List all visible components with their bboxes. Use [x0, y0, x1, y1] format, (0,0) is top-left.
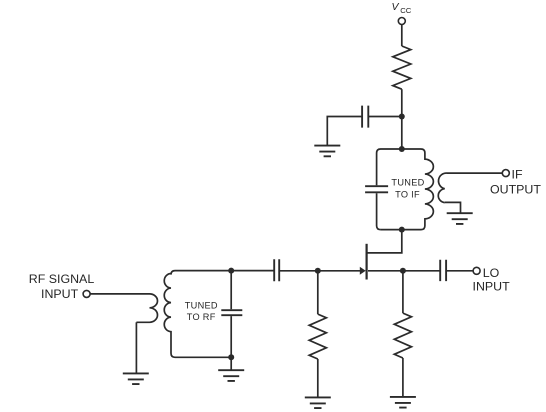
label RF SIGNAL INPUT — [29, 272, 95, 301]
svg-text:CC: CC — [400, 6, 411, 15]
inductor L1a primary of RF transformer — [136, 294, 157, 322]
svg-text:TUNED: TUNED — [185, 301, 218, 311]
RF input terminal circle — [83, 290, 90, 297]
junction dot LO node — [400, 268, 406, 274]
ground (R2) — [305, 397, 331, 408]
wire RF tank cap branch — [230, 271, 232, 358]
wire RF input to T1 primary — [90, 293, 149, 295]
label LO INPUT — [473, 266, 511, 294]
IF output terminal circle — [502, 170, 509, 177]
junction dot IF tank bottom — [399, 227, 405, 233]
wire drain stub to IF tank — [367, 233, 402, 253]
wire C3 to LO terminal — [446, 270, 473, 272]
wire RF tank ground stem — [230, 357, 232, 370]
wire right resistor top — [402, 271, 404, 313]
wire C1 to ground — [327, 117, 362, 146]
junction dot drain bypass node — [399, 114, 405, 120]
wire source side bus — [368, 270, 440, 272]
svg-text:RF SIGNAL: RF SIGNAL — [29, 272, 95, 286]
wire R2 to ground — [317, 359, 319, 397]
svg-text:TO IF: TO IF — [395, 189, 420, 199]
svg-text:INPUT: INPUT — [473, 280, 511, 294]
wire R1 to IF tank top — [401, 89, 403, 149]
junction dot IF tank top — [399, 146, 405, 152]
wire left resistor top — [317, 271, 319, 314]
inductor L2 primary of IF transformer — [421, 153, 433, 230]
svg-text:TO RF: TO RF — [187, 312, 216, 322]
transistor Q1 gate arrow — [360, 267, 366, 275]
capacitor C2 (series RF coupling) — [274, 259, 279, 281]
resistor R3 (source bias) — [394, 313, 411, 358]
svg-text:V: V — [392, 1, 400, 13]
resistor R2 (gate bias) — [309, 314, 326, 359]
wire T1 primary to ground — [135, 322, 137, 373]
capacitor C5 (RF tank) — [221, 310, 242, 315]
junction dot gate bus left — [228, 268, 234, 274]
transistor Q1 channel bar — [366, 244, 368, 280]
ground (IF secondary) — [447, 213, 473, 224]
wire series cap to gate — [279, 270, 361, 272]
inductor L3 secondary of IF transformer — [438, 173, 502, 203]
ground (RF tank) — [218, 370, 244, 381]
capacitor C4 (IF tank) — [365, 186, 388, 192]
label TUNED TO RF — [185, 301, 218, 323]
wire main bus tank top to series cap — [175, 270, 274, 272]
ground (RF primary) — [123, 373, 149, 384]
resistor R1 (drain supply) — [393, 46, 411, 89]
wire IF secondary to ground — [445, 202, 461, 213]
junction dot source bias node — [315, 268, 321, 274]
wire IF tank left side upper — [376, 153, 378, 185]
svg-text:OUTPUT: OUTPUT — [490, 183, 541, 197]
label TUNED TO IF — [391, 178, 424, 200]
wire RF tank bottom edge — [175, 356, 231, 358]
LO input terminal circle — [473, 267, 480, 274]
svg-text:TUNED: TUNED — [391, 178, 424, 188]
inductor L1b secondary of RF transformer — [164, 271, 175, 358]
node Vcc label — [392, 1, 412, 15]
wire IF tank left side lower — [377, 193, 381, 229]
junction dot RF tank bottom — [228, 354, 234, 360]
ground (R3) — [390, 397, 416, 408]
Vcc terminal circle — [398, 18, 405, 25]
wire bypass node to C1 — [368, 116, 402, 118]
wire IF tank top edge — [377, 149, 425, 153]
ground (bypass C1) — [314, 146, 340, 157]
svg-text:IF: IF — [512, 168, 523, 182]
wire IF tank bottom edge — [381, 229, 421, 231]
wire Vcc to R1 — [401, 25, 403, 46]
capacitor C1 (bypass) — [362, 106, 368, 128]
label IF OUTPUT — [490, 168, 541, 197]
svg-text:INPUT: INPUT — [41, 287, 79, 301]
capacitor C3 (LO coupling) — [440, 260, 446, 281]
svg-text:LO: LO — [483, 266, 500, 280]
wire R3 to ground — [402, 358, 404, 397]
